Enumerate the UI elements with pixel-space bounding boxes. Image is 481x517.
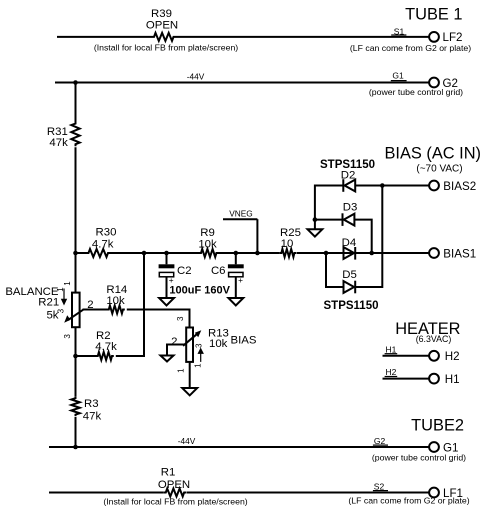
svg-text:47k: 47k: [83, 410, 102, 422]
junction main/R2vert: [142, 251, 147, 256]
svg-text:OPEN: OPEN: [146, 20, 178, 32]
junction rail/main line: [73, 251, 78, 256]
resistor R1: [158, 466, 190, 496]
svg-text:D3: D3: [343, 201, 358, 213]
svg-text:1: 1: [177, 368, 186, 373]
svg-text:2: 2: [171, 336, 177, 348]
junction rail/G2 line: [73, 80, 78, 85]
svg-text:R30: R30: [96, 227, 117, 239]
svg-text:10k: 10k: [198, 239, 217, 251]
svg-text:R39: R39: [151, 8, 172, 20]
svg-text:R1: R1: [161, 466, 176, 478]
junction main/D3 vert: [369, 251, 374, 256]
wire heater H1: [383, 378, 430, 380]
svg-text:(6.3VAC): (6.3VAC): [416, 334, 452, 344]
resistor R3: [71, 397, 101, 423]
svg-text:(power tube control grid): (power tube control grid): [369, 87, 463, 97]
svg-text:(Install for local FB from pla: (Install for local FB from plate/screen): [94, 42, 238, 52]
junction main/C2: [164, 251, 169, 256]
junction main/C6: [234, 251, 239, 256]
terminal BIAS1: [429, 247, 476, 260]
svg-text:R21: R21: [38, 296, 59, 308]
wire main line seg4: [297, 252, 430, 254]
wire LF2 feedback line (left part): [57, 36, 152, 38]
diode D5: [342, 269, 357, 294]
junction BIAS2/D5 vert: [380, 183, 385, 188]
wire rail lower: [75, 327, 77, 397]
svg-text:-44V: -44V: [187, 71, 205, 81]
terminal LF2: [429, 31, 462, 44]
potentiometer R21 BALANCE: [5, 281, 93, 339]
diode D3: [343, 201, 358, 226]
resistor R14: [106, 284, 127, 313]
svg-text:VNEG: VNEG: [229, 209, 253, 219]
svg-text:H2: H2: [445, 350, 460, 363]
svg-text:10: 10: [281, 238, 294, 250]
svg-text:(Install for local FB from pla: (Install for local FB from plate/screen): [103, 497, 247, 507]
svg-text:H2: H2: [386, 367, 397, 377]
junction rail/G1 line: [73, 445, 78, 450]
svg-text:D5: D5: [342, 269, 357, 281]
terminal G2: [429, 77, 458, 90]
resistor R25: [280, 227, 301, 257]
svg-text:3: 3: [194, 343, 203, 348]
svg-text:-44V: -44V: [178, 436, 196, 446]
svg-text:(LF can come from G2 or plate): (LF can come from G2 or plate): [348, 496, 469, 506]
resistor R39: [146, 8, 178, 41]
wire R13 pin1 to ground: [189, 362, 191, 388]
ground R13 wiper: [161, 356, 174, 362]
junction D2/D3/gnd: [313, 217, 318, 222]
ground stub at D2/D3: [314, 220, 316, 230]
wire D2 right to BIAS2: [355, 185, 429, 187]
svg-text:3: 3: [63, 334, 72, 339]
svg-text:H1: H1: [386, 344, 397, 354]
junction main/VNEG: [255, 251, 260, 256]
net flag H2: [385, 367, 398, 377]
capacitor C2: [159, 253, 192, 298]
net label VNEG: [223, 209, 257, 254]
svg-text:BIAS (AC IN): BIAS (AC IN): [384, 145, 481, 163]
svg-text:100uF 160V: 100uF 160V: [169, 284, 230, 296]
wire main line seg3: [218, 252, 280, 254]
wire D2 left + vertical down: [315, 186, 343, 220]
wire rail bottom: [75, 417, 77, 447]
svg-text:H1: H1: [445, 373, 460, 386]
wire LF1 line left: [49, 492, 164, 494]
svg-text:D2: D2: [341, 169, 356, 181]
svg-text:D4: D4: [342, 237, 357, 249]
junction rail/R2: [73, 354, 78, 359]
svg-text:3: 3: [176, 316, 185, 321]
svg-text:OPEN: OPEN: [158, 479, 190, 491]
resistor R30: [87, 227, 117, 258]
svg-text:TUBE2: TUBE2: [411, 416, 464, 434]
terminal LF1: [429, 487, 463, 500]
svg-text:STPS1150: STPS1150: [324, 300, 379, 312]
wire main line seg1: [76, 252, 87, 254]
svg-text:C2: C2: [177, 265, 192, 277]
wire R13 wiper to ground: [167, 345, 186, 356]
svg-text:BIAS1: BIAS1: [443, 247, 476, 260]
svg-text:+: +: [238, 275, 243, 285]
net flag G1: [391, 70, 407, 80]
terminal G1: [429, 441, 458, 454]
wire heater H2: [383, 355, 430, 357]
svg-text:(~70 VAC): (~70 VAC): [416, 163, 462, 174]
resistor R2: [95, 330, 117, 360]
wire R2 line left: [76, 355, 97, 357]
diode D2: [341, 169, 356, 192]
svg-text:(LF can come from G2 or plate): (LF can come from G2 or plate): [350, 43, 471, 53]
wire LF2 feedback line (right part): [176, 36, 430, 38]
svg-text:10k: 10k: [106, 295, 125, 307]
net flag S1: [391, 26, 406, 36]
svg-text:G1: G1: [392, 70, 404, 80]
wire G1 grid line bottom: [49, 446, 429, 448]
ground C6: [228, 298, 243, 306]
svg-text:4.7k: 4.7k: [95, 341, 117, 353]
svg-text:1: 1: [63, 281, 72, 286]
resistor R31: [47, 122, 80, 149]
capacitor C6: [211, 253, 244, 298]
terminal H2: [429, 350, 460, 363]
wire R21 wiper line left: [83, 309, 108, 311]
wire R2 line right + vertical to main: [116, 253, 144, 356]
wire D5 right + vertical up to BIAS2 line: [355, 186, 382, 288]
wire R14 to R13 pin3: [127, 310, 190, 328]
svg-text:3: 3: [57, 308, 66, 313]
wire rail upper: [75, 83, 77, 122]
terminal BIAS2: [429, 180, 476, 193]
svg-text:(power tube control grid): (power tube control grid): [372, 453, 466, 463]
ground D2/D3: [308, 229, 323, 236]
net flag S2: [373, 481, 388, 491]
potentiometer R13 BIAS: [171, 316, 257, 373]
svg-text:BIAS: BIAS: [231, 335, 257, 347]
ground R13 pin1: [182, 388, 197, 395]
net flag G2: [373, 436, 388, 446]
svg-text:S2: S2: [374, 481, 385, 491]
junction main/D5 branch: [324, 251, 329, 256]
wire D3 right + vertical to main: [354, 220, 371, 253]
resistor R9: [198, 227, 218, 257]
svg-text:47k: 47k: [49, 137, 68, 149]
net flag H1: [385, 344, 398, 354]
terminal H1: [429, 373, 460, 386]
svg-text:1: 1: [56, 287, 65, 292]
svg-text:R9: R9: [200, 227, 215, 239]
svg-text:4.7k: 4.7k: [92, 239, 114, 251]
svg-text:TUBE 1: TUBE 1: [405, 5, 462, 23]
wire G2 grid line: [55, 82, 429, 84]
svg-text:C6: C6: [211, 265, 226, 277]
wire D3 left: [315, 219, 343, 221]
wire rail mid: [75, 147, 77, 292]
wire LF1 line right: [187, 492, 430, 494]
R13 adjust arrow: [198, 348, 204, 362]
wire main line seg2: [110, 252, 199, 254]
R21 adjust arrow: [61, 289, 67, 306]
svg-text:1: 1: [193, 363, 202, 368]
ground C2: [159, 298, 174, 306]
svg-text:BIAS2: BIAS2: [443, 180, 476, 193]
diode D4: [342, 237, 357, 260]
wire D5 branch: down, across, diode, up: [326, 253, 344, 287]
svg-text:10k: 10k: [209, 338, 228, 350]
svg-text:R3: R3: [84, 398, 99, 410]
